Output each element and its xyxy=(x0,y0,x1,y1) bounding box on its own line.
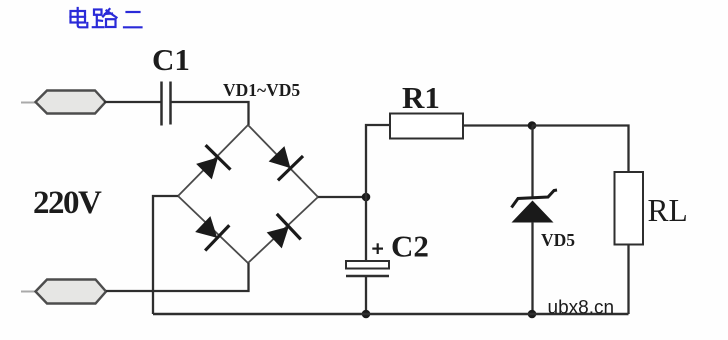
wire node C to RL top corner xyxy=(532,126,629,173)
wire bridge right corner to node A xyxy=(318,196,366,198)
wire R1 to node C xyxy=(463,124,532,126)
svg-text:ubx8.cn: ubx8.cn xyxy=(548,298,615,319)
diode VD3 (bottom-left arm, points to bottom corner) xyxy=(191,211,230,250)
capacitor C2 (electrolytic) xyxy=(346,261,389,276)
svg-text:220V: 220V xyxy=(33,185,102,221)
capacitor C1 xyxy=(162,82,171,126)
svg-text:C1: C1 xyxy=(152,42,190,77)
char 二 xyxy=(124,12,142,27)
bridge edge wire top-left xyxy=(178,125,248,196)
diode VD2 (top-right arm, points to right corner) xyxy=(264,142,303,181)
svg-text:VD1~VD5: VD1~VD5 xyxy=(223,80,300,100)
wire VD5 top lead xyxy=(531,126,533,199)
bridge edge wire bottom-left xyxy=(178,196,248,263)
wire RL bottom lead xyxy=(627,245,629,315)
node D junction dot (VD5 bottom) xyxy=(528,310,537,319)
wire T1 to C1 xyxy=(104,101,161,103)
title 电路二 xyxy=(71,8,142,27)
wire C1 to bridge top xyxy=(171,102,249,125)
zener diode VD5 xyxy=(512,190,558,223)
char 路 xyxy=(93,9,117,27)
diode VD1 (top-left arm, points to top corner) xyxy=(192,145,231,184)
node C junction dot (VD5 top) xyxy=(528,121,537,130)
wire T2 to bridge bottom xyxy=(106,263,249,291)
terminal T1 (top AC input) xyxy=(21,91,106,114)
wire VD5 bottom lead xyxy=(531,222,533,314)
terminal T2 (bottom AC input) xyxy=(21,280,106,304)
bridge edge wire top-right xyxy=(248,125,318,197)
svg-text:RL: RL xyxy=(648,193,688,228)
label + of C2 xyxy=(372,243,383,254)
resistor R1 xyxy=(390,114,463,139)
bridge edge wire bottom-right xyxy=(248,197,318,263)
svg-text:VD5: VD5 xyxy=(541,230,575,250)
diode VD4 (bottom-right arm, points to right corner) xyxy=(262,214,301,253)
char 电 xyxy=(71,8,88,27)
svg-text:C2: C2 xyxy=(391,229,429,264)
resistor RL xyxy=(615,172,644,245)
wire node A down to C2 xyxy=(365,197,367,261)
wire C2 to bottom rail xyxy=(365,276,367,314)
wire bridge left corner to left drop xyxy=(153,196,178,314)
wire vertical x=366 upper (node A up to R1 corner) xyxy=(366,125,390,197)
bottom rail wire xyxy=(153,313,629,316)
node A junction dot xyxy=(362,193,371,202)
svg-text:R1: R1 xyxy=(402,80,440,115)
node B junction dot (C2 bottom) xyxy=(362,310,371,319)
